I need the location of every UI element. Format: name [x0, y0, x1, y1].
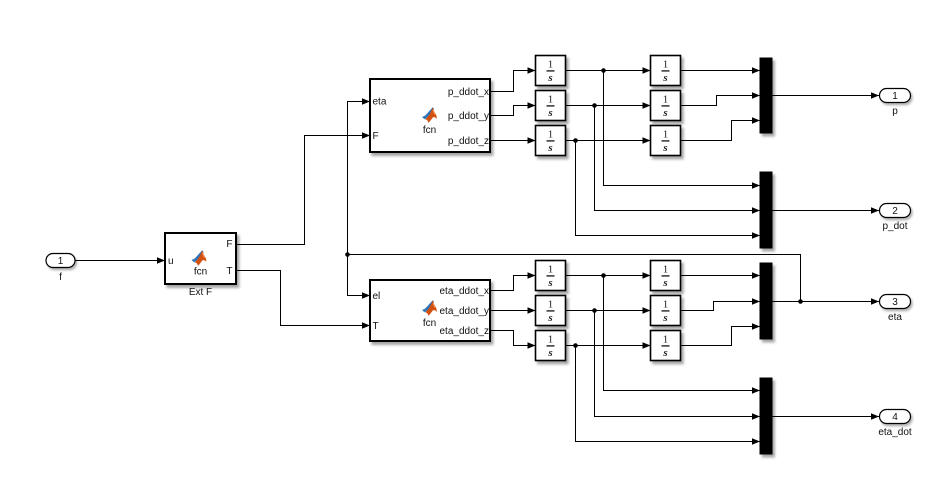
- svg-text:1: 1: [548, 299, 554, 311]
- svg-text:u: u: [168, 256, 174, 267]
- svg-text:fcn: fcn: [194, 267, 207, 278]
- svg-text:1: 1: [663, 59, 669, 71]
- svg-text:fcn: fcn: [423, 125, 436, 136]
- svg-text:3: 3: [892, 297, 898, 308]
- wire: mux2 to outport 2: [772, 207, 879, 213]
- svg-text:1: 1: [548, 94, 554, 106]
- wire: mux1 to outport 1: [772, 92, 879, 98]
- mux M4 (eta_dot): [760, 378, 772, 454]
- wire: branch I3a output to mux2 input 3: [576, 141, 761, 239]
- svg-text:s: s: [547, 107, 552, 119]
- outport 1 (p): [880, 89, 911, 118]
- MATLAB Function block fcn2 (eta_ddot): [370, 280, 490, 341]
- MATLAB Function block fcn1 (p_ddot): [370, 79, 490, 152]
- integrator block I5b (1/s): [651, 296, 681, 326]
- integrator block I6a (1/s): [536, 331, 566, 361]
- svg-text:p: p: [892, 106, 898, 117]
- wire: I6b to mux3 input 3: [681, 323, 761, 345]
- wire: I5a to I5b: [566, 307, 651, 313]
- integrator block I1a (1/s): [536, 56, 566, 86]
- wire: mux3 to outport 3 (eta): [772, 298, 879, 304]
- svg-text:p_ddot_x: p_ddot_x: [448, 87, 489, 98]
- junction: I4a output branch: [601, 273, 606, 278]
- MATLAB logo in fcn1: [422, 107, 437, 123]
- svg-text:p_ddot_z: p_ddot_z: [448, 136, 489, 147]
- wire: branch I1a output to mux2 input 1: [604, 71, 761, 189]
- junction: I3a output branch: [573, 138, 578, 143]
- wire: eta feedback from mux3 output: [348, 255, 801, 302]
- svg-text:eta: eta: [888, 312, 902, 323]
- svg-text:p_dot: p_dot: [882, 221, 907, 232]
- wire: I1b to mux1 input 1: [681, 67, 761, 73]
- svg-text:eta_ddot_y: eta_ddot_y: [440, 306, 490, 317]
- svg-text:s: s: [662, 142, 667, 154]
- integrator block I4b (1/s): [651, 261, 681, 291]
- wire: eta_ddot_z to integrator I6a: [490, 331, 536, 349]
- junction: mux3 output branch: [798, 299, 803, 304]
- outport 4 (eta_dot): [878, 410, 912, 439]
- wire: Ext F output F to fcn1 input F: [236, 132, 370, 244]
- svg-text:eta: eta: [373, 97, 387, 108]
- svg-text:1: 1: [548, 129, 554, 141]
- wire: eta_ddot_y to integrator I5a: [490, 307, 536, 313]
- wire: p_ddot_y to integrator I2a: [490, 102, 536, 115]
- wire: Ext F output T to fcn2 input T: [236, 271, 370, 329]
- wire: p_ddot_z to integrator I3a: [490, 137, 536, 143]
- wire: I2b to mux1 input 2: [681, 92, 761, 105]
- wire: branch I4a output to mux4 input 1: [604, 276, 761, 394]
- mux M1 (p): [760, 58, 772, 133]
- svg-text:s: s: [547, 277, 552, 289]
- svg-text:1: 1: [548, 334, 554, 346]
- MATLAB logo in fcn2: [422, 300, 437, 316]
- svg-text:T: T: [373, 321, 379, 332]
- svg-text:s: s: [547, 347, 552, 359]
- wire: p_ddot_x to integrator I1a: [490, 67, 536, 91]
- integrator block I6b (1/s): [651, 331, 681, 361]
- outport 3 (eta): [880, 295, 911, 324]
- junction: I5a output branch: [592, 308, 597, 313]
- svg-text:el: el: [373, 291, 381, 302]
- wire: eta feedback to fcn2 input el: [348, 255, 371, 299]
- wire: eta feedback to fcn1 input eta: [348, 98, 371, 254]
- svg-text:p_ddot_y: p_ddot_y: [448, 111, 489, 122]
- junction: I1a output branch: [601, 68, 606, 73]
- integrator block I1b (1/s): [651, 56, 681, 86]
- wire: branch I5a output to mux4 input 2: [595, 311, 761, 420]
- integrator block I3a (1/s): [536, 126, 566, 156]
- mux M2 (p_dot): [760, 172, 772, 248]
- wire: I3a to I3b: [566, 137, 651, 143]
- wire: branch I6a output to mux4 input 3: [576, 346, 761, 445]
- svg-text:1: 1: [892, 91, 898, 102]
- svg-text:s: s: [662, 72, 667, 84]
- integrator block I5a (1/s): [536, 296, 566, 326]
- wire: I4a to I4b: [566, 272, 651, 278]
- svg-text:1: 1: [548, 59, 554, 71]
- integrator block I4a (1/s): [536, 261, 566, 291]
- svg-text:1: 1: [663, 334, 669, 346]
- svg-text:1: 1: [663, 129, 669, 141]
- integrator block I2a (1/s): [536, 91, 566, 121]
- svg-text:1: 1: [663, 264, 669, 276]
- svg-text:F: F: [226, 239, 232, 250]
- mux M3 (eta): [760, 263, 772, 339]
- svg-text:1: 1: [663, 94, 669, 106]
- wire: eta_ddot_x to integrator I4a: [490, 272, 536, 290]
- junction: I2a output branch: [592, 103, 597, 108]
- svg-text:eta_ddot_x: eta_ddot_x: [440, 286, 490, 297]
- wire: I3b to mux1 input 3: [681, 117, 761, 140]
- wire: I6a to I6b: [566, 342, 651, 348]
- integrator block I2b (1/s): [651, 91, 681, 121]
- svg-text:eta_dot: eta_dot: [878, 427, 912, 438]
- MATLAB logo in Ext F: [192, 250, 207, 266]
- svg-text:s: s: [662, 107, 667, 119]
- junction: I6a output branch: [573, 343, 578, 348]
- wire: inport f to Ext F input u: [75, 257, 165, 263]
- svg-text:T: T: [226, 266, 232, 277]
- svg-text:1: 1: [58, 256, 64, 267]
- svg-text:F: F: [373, 131, 379, 142]
- svg-text:s: s: [547, 72, 552, 84]
- svg-text:s: s: [547, 312, 552, 324]
- svg-text:f: f: [59, 272, 62, 283]
- inport 1 (f): [46, 254, 75, 284]
- svg-text:4: 4: [892, 412, 898, 423]
- svg-text:1: 1: [663, 299, 669, 311]
- wire: I2a to I2b: [566, 102, 651, 108]
- svg-text:s: s: [547, 142, 552, 154]
- svg-text:s: s: [662, 312, 667, 324]
- outport 2 (p_dot): [880, 204, 911, 233]
- svg-text:fcn: fcn: [423, 318, 436, 329]
- wire: I4b to mux3 input 1: [681, 272, 761, 278]
- svg-text:eta_ddot_z: eta_ddot_z: [440, 326, 490, 337]
- svg-text:1: 1: [548, 264, 554, 276]
- wire: I5b to mux3 input 2: [681, 298, 761, 310]
- svg-text:2: 2: [892, 206, 898, 217]
- svg-text:s: s: [662, 277, 667, 289]
- wire: branch I2a output to mux2 input 2: [595, 106, 761, 214]
- junction: eta feedback branch: [345, 252, 350, 257]
- wire: I1a to I1b: [566, 67, 651, 73]
- svg-text:Ext F: Ext F: [189, 287, 212, 298]
- integrator block I3b (1/s): [651, 126, 681, 156]
- wire: mux4 to outport 4: [772, 413, 879, 419]
- MATLAB Function block Ext F: [165, 233, 236, 298]
- svg-text:s: s: [662, 347, 667, 359]
